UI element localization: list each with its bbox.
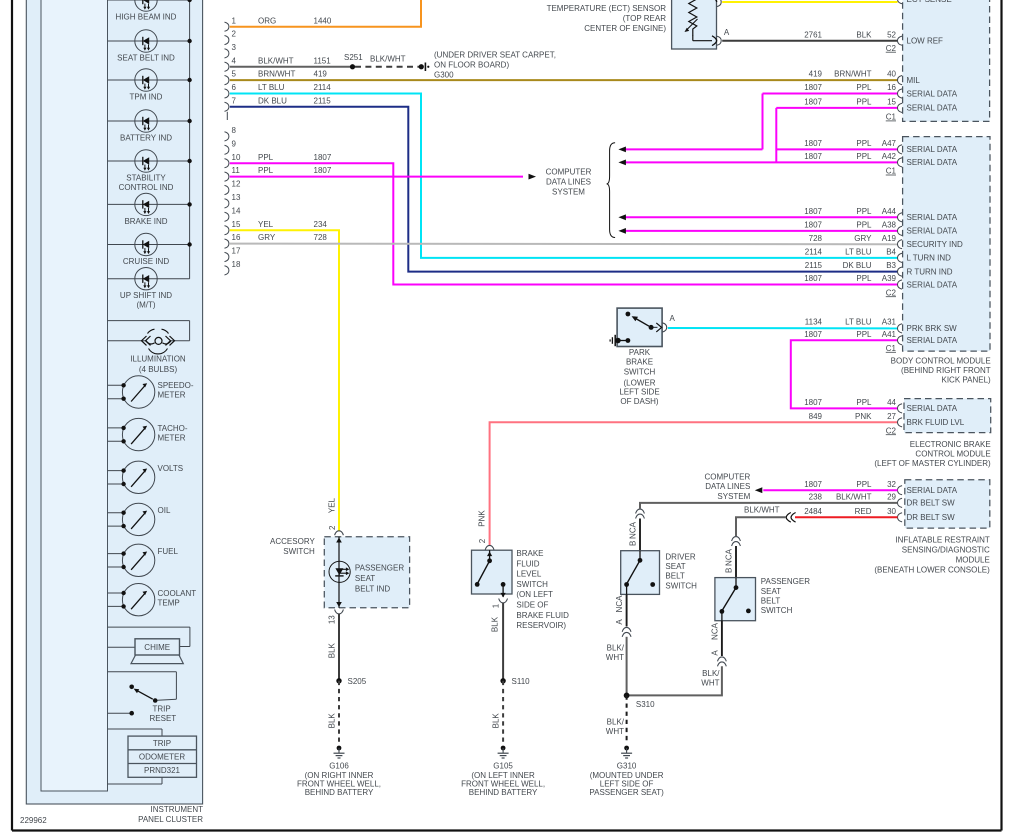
wire YEL 234 pin 15 xyxy=(230,220,339,531)
svg-text:GRY: GRY xyxy=(258,233,276,242)
svg-text:SWITCH: SWITCH xyxy=(665,581,697,590)
cluster connector pin 11 xyxy=(225,166,241,181)
svg-text:10: 10 xyxy=(232,153,241,162)
wire PPL 1807 to module pin 16 xyxy=(763,83,898,93)
svg-text:15: 15 xyxy=(887,98,896,107)
svg-text:SYSTEM: SYSTEM xyxy=(717,492,750,501)
svg-text:LEFT SIDE OF: LEFT SIDE OF xyxy=(600,780,654,789)
svg-text:C2: C2 xyxy=(886,426,897,435)
gauge SPEEDO xyxy=(108,376,194,408)
cluster connector pin 2 xyxy=(225,30,237,45)
svg-text:DRIVER: DRIVER xyxy=(665,552,695,561)
driver seat belt switch xyxy=(621,551,660,595)
wire PPL 1807 to SDM 32 xyxy=(755,480,898,493)
svg-text:A39: A39 xyxy=(882,274,897,283)
svg-text:DATA LINES: DATA LINES xyxy=(705,482,750,491)
instrument panel cluster outline xyxy=(26,0,202,804)
svg-text:SERIAL DATA: SERIAL DATA xyxy=(907,486,958,495)
wire PPL 1807 serial data A47 xyxy=(618,94,897,153)
svg-text:1: 1 xyxy=(491,603,500,608)
svg-text:A44: A44 xyxy=(882,207,897,216)
wire NCA A below passenger switch xyxy=(710,621,726,667)
wire PPL 1807 to module pin 15 xyxy=(776,98,897,108)
wire LT BLU 1134 to A31 xyxy=(668,318,898,329)
svg-text:RED: RED xyxy=(855,507,872,516)
svg-text:FRONT WHEEL WELL,: FRONT WHEEL WELL, xyxy=(297,780,381,789)
svg-text:SIDE OF: SIDE OF xyxy=(516,601,548,610)
indicator LED stability control xyxy=(108,150,192,192)
svg-text:OIL: OIL xyxy=(158,506,171,515)
dashed BLK/WHT to G310 xyxy=(606,695,627,744)
svg-text:5: 5 xyxy=(232,70,237,79)
svg-text:LEFT SIDE: LEFT SIDE xyxy=(619,387,659,396)
svg-text:1807: 1807 xyxy=(804,83,822,92)
cluster connector pin 6 xyxy=(225,83,237,98)
brake fluid level switch label xyxy=(516,549,569,630)
svg-text:9: 9 xyxy=(232,139,237,148)
svg-text:(ON RIGHT INNER: (ON RIGHT INNER xyxy=(305,771,374,780)
computer data lines system note 1 xyxy=(546,168,592,197)
svg-text:2: 2 xyxy=(328,525,337,530)
svg-text:SERIAL DATA: SERIAL DATA xyxy=(907,104,958,113)
wire BLK/WHT 1151 pin 4 xyxy=(230,56,353,66)
svg-text:COMPUTER: COMPUTER xyxy=(546,168,592,177)
illumination bulbs (4) xyxy=(108,321,190,374)
svg-text:8: 8 xyxy=(232,126,237,135)
svg-text:R TURN IND: R TURN IND xyxy=(907,267,953,276)
svg-text:1807: 1807 xyxy=(804,330,822,339)
indicator LED TPM xyxy=(108,69,192,102)
svg-text:11: 11 xyxy=(232,166,241,175)
brace computer data lines xyxy=(607,143,616,238)
indicator LED high beam xyxy=(108,0,192,22)
dashed BLK to G105 xyxy=(492,681,504,744)
computer data lines system note 2 xyxy=(705,473,751,501)
wire GRY 728 pin 16 to A19 xyxy=(230,233,898,244)
svg-text:TEMPERATURE (ECT) SENSOR: TEMPERATURE (ECT) SENSOR xyxy=(547,4,667,13)
cluster internal bus xyxy=(189,0,191,279)
svg-text:G300: G300 xyxy=(434,70,454,79)
svg-text:BELT: BELT xyxy=(665,572,685,581)
svg-text:(ON LEFT: (ON LEFT xyxy=(516,590,553,599)
svg-text:1807: 1807 xyxy=(804,139,822,148)
cluster connector pin 1 xyxy=(225,16,237,31)
svg-text:ODOMETER: ODOMETER xyxy=(139,753,185,762)
splice S251 xyxy=(344,53,363,69)
svg-text:SEAT: SEAT xyxy=(761,587,781,596)
svg-text:CHIME: CHIME xyxy=(144,643,170,652)
svg-text:VOLTS: VOLTS xyxy=(158,464,184,473)
svg-text:14: 14 xyxy=(232,206,241,215)
svg-text:G105: G105 xyxy=(493,761,513,770)
svg-text:PPL: PPL xyxy=(856,207,872,216)
svg-text:PARK: PARK xyxy=(629,348,651,357)
cluster connector pin 4 xyxy=(225,56,237,71)
svg-text:TPM IND: TPM IND xyxy=(130,93,163,102)
svg-text:METER: METER xyxy=(158,391,186,400)
svg-text:32: 32 xyxy=(887,480,896,489)
svg-text:TRIP: TRIP xyxy=(153,705,171,714)
svg-text:15: 15 xyxy=(232,220,241,229)
svg-text:849: 849 xyxy=(809,412,823,421)
svg-text:BATTERY IND: BATTERY IND xyxy=(120,134,172,143)
body control module xyxy=(886,137,990,353)
svg-text:C2: C2 xyxy=(886,288,897,297)
svg-text:WHT: WHT xyxy=(606,653,624,662)
svg-text:BLK/WHT: BLK/WHT xyxy=(370,55,406,64)
svg-text:3: 3 xyxy=(232,43,237,52)
svg-text:BRAKE: BRAKE xyxy=(626,357,653,366)
svg-text:BLK: BLK xyxy=(327,642,336,658)
svg-text:PASSENGER: PASSENGER xyxy=(355,564,404,573)
svg-text:LT BLU: LT BLU xyxy=(258,83,285,92)
svg-text:PRK BRK SW: PRK BRK SW xyxy=(907,324,958,333)
svg-text:SEAT: SEAT xyxy=(355,574,375,583)
svg-text:234: 234 xyxy=(314,220,328,229)
svg-text:BRN/WHT: BRN/WHT xyxy=(258,70,295,79)
ground G300 note xyxy=(434,50,556,79)
svg-text:CONTROL MODULE: CONTROL MODULE xyxy=(915,450,990,459)
svg-text:HIGH BEAM IND: HIGH BEAM IND xyxy=(116,13,177,22)
svg-text:MODULE: MODULE xyxy=(956,555,990,564)
svg-text:PPL: PPL xyxy=(856,139,872,148)
svg-text:SERIAL DATA: SERIAL DATA xyxy=(907,158,958,167)
svg-text:2: 2 xyxy=(478,538,487,543)
indicator LED seat belt xyxy=(108,30,192,63)
label: instrument panel cluster xyxy=(138,805,203,824)
svg-text:SWITCH: SWITCH xyxy=(624,367,656,376)
svg-text:27: 27 xyxy=(887,412,896,421)
svg-text:LT BLU: LT BLU xyxy=(845,248,872,257)
svg-text:B3: B3 xyxy=(886,261,896,270)
svg-text:LEVEL: LEVEL xyxy=(516,570,541,579)
svg-text:ELECTRONIC BRAKE: ELECTRONIC BRAKE xyxy=(910,440,991,449)
gauge TACHO xyxy=(108,418,188,450)
wire DK BLU 2115 pin 7 to B3 xyxy=(230,96,898,271)
svg-text:NCA: NCA xyxy=(615,595,624,613)
inflatable restraint module label xyxy=(874,536,990,575)
wire BRN/WHT 419 pin 5 to MIL xyxy=(230,70,898,80)
connector on driver belt wire xyxy=(636,509,645,518)
svg-text:A38: A38 xyxy=(882,221,897,230)
svg-text:12: 12 xyxy=(232,180,241,189)
trip reset switch xyxy=(108,672,177,723)
svg-text:1: 1 xyxy=(232,16,237,25)
electronic brake control module label xyxy=(874,440,991,468)
svg-text:(LEFT OF MASTER CYLINDER): (LEFT OF MASTER CYLINDER) xyxy=(874,459,991,468)
svg-text:INSTRUMENT: INSTRUMENT xyxy=(151,805,204,814)
svg-text:229962: 229962 xyxy=(20,816,47,825)
wire BLK 2761 to LOW REF 52 xyxy=(722,30,897,40)
svg-text:A: A xyxy=(615,619,624,625)
svg-text:16: 16 xyxy=(232,233,241,242)
wire NCA B to passenger switch xyxy=(724,546,736,578)
svg-text:PPL: PPL xyxy=(856,480,872,489)
svg-text:PASSENGER SEAT): PASSENGER SEAT) xyxy=(589,788,664,797)
indicator LED cruise xyxy=(108,233,192,266)
svg-text:TACHO-: TACHO- xyxy=(158,424,188,433)
svg-text:PRND321: PRND321 xyxy=(144,766,181,775)
passenger seat belt switch label xyxy=(761,577,810,615)
svg-text:DK BLU: DK BLU xyxy=(258,96,287,105)
svg-text:PPL: PPL xyxy=(856,83,872,92)
svg-text:BLK/: BLK/ xyxy=(702,669,720,678)
svg-text:728: 728 xyxy=(809,234,823,243)
svg-text:2761: 2761 xyxy=(804,30,822,39)
cluster connector pin 14 xyxy=(225,206,241,221)
svg-text:728: 728 xyxy=(314,233,328,242)
svg-text:PPL: PPL xyxy=(258,166,274,175)
svg-text:A31: A31 xyxy=(882,318,897,327)
svg-text:1807: 1807 xyxy=(314,166,332,175)
svg-text:SWITCH: SWITCH xyxy=(761,606,793,615)
wire BLK/WHT to passenger belt switch xyxy=(736,506,786,537)
cluster connector pin 7 xyxy=(225,96,237,111)
svg-text:UP SHIFT IND: UP SHIFT IND xyxy=(120,291,172,300)
cluster connector pin 17 xyxy=(225,247,241,262)
svg-text:LT BLU: LT BLU xyxy=(845,318,872,327)
svg-text:SERIAL DATA: SERIAL DATA xyxy=(907,89,958,98)
cluster connector pin 18 xyxy=(225,260,241,275)
svg-text:30: 30 xyxy=(887,507,896,516)
wire NCA B to driver switch xyxy=(628,519,640,551)
svg-text:419: 419 xyxy=(314,70,328,79)
svg-text:METER: METER xyxy=(158,433,186,442)
svg-text:B4: B4 xyxy=(886,248,896,257)
wire BLK 13 to S205 xyxy=(327,610,343,681)
svg-text:COMPUTER: COMPUTER xyxy=(705,473,751,482)
svg-text:1807: 1807 xyxy=(804,480,822,489)
cluster connector pin 12 xyxy=(225,180,241,195)
svg-text:A19: A19 xyxy=(882,234,897,243)
wire PPL 1807 A41 to EBCM 44 xyxy=(791,330,898,408)
indicator LED up shift xyxy=(108,268,190,310)
diagram number 229962 xyxy=(20,816,47,825)
svg-text:STABILITY: STABILITY xyxy=(126,174,166,183)
svg-text:44: 44 xyxy=(887,398,896,407)
svg-text:SEAT BELT IND: SEAT BELT IND xyxy=(117,54,175,63)
svg-text:TEMP: TEMP xyxy=(158,598,180,607)
svg-text:ON FLOOR BOARD): ON FLOOR BOARD) xyxy=(434,60,509,69)
wire BLK pin 1 to S110 xyxy=(491,599,508,681)
svg-text:ILLUMINATION: ILLUMINATION xyxy=(130,355,186,364)
gauge VOLTS xyxy=(108,461,184,493)
svg-text:1807: 1807 xyxy=(804,274,822,283)
svg-text:B: B xyxy=(628,541,637,546)
svg-text:RESERVOIR): RESERVOIR) xyxy=(516,621,566,630)
svg-text:1807: 1807 xyxy=(314,153,332,162)
svg-text:C1: C1 xyxy=(886,167,897,176)
svg-text:PASSENGER: PASSENGER xyxy=(761,577,810,586)
body control module label xyxy=(891,357,991,385)
svg-text:BLK: BLK xyxy=(856,30,872,39)
svg-text:C1: C1 xyxy=(886,344,897,353)
svg-text:PPL: PPL xyxy=(856,221,872,230)
splice S205 xyxy=(336,677,366,686)
svg-text:SERIAL DATA: SERIAL DATA xyxy=(907,280,958,289)
svg-text:PPL: PPL xyxy=(856,398,872,407)
svg-text:SECURITY IND: SECURITY IND xyxy=(907,240,964,249)
svg-text:238: 238 xyxy=(809,493,823,502)
svg-text:A47: A47 xyxy=(882,139,897,148)
svg-text:1807: 1807 xyxy=(804,207,822,216)
svg-text:BLK: BLK xyxy=(491,616,500,632)
svg-text:SERIAL DATA: SERIAL DATA xyxy=(907,227,958,236)
svg-text:OF DASH): OF DASH) xyxy=(620,397,659,406)
svg-text:BRAKE: BRAKE xyxy=(516,549,543,558)
ground G105 xyxy=(461,746,545,798)
svg-text:29: 29 xyxy=(887,493,896,502)
svg-text:BLK/WHT: BLK/WHT xyxy=(744,506,780,515)
park brake switch xyxy=(610,308,675,346)
wire PPL 1807 serial data A38 xyxy=(618,221,897,234)
svg-text:S251: S251 xyxy=(344,53,363,62)
connector group tick xyxy=(226,112,228,120)
svg-text:6: 6 xyxy=(232,83,237,92)
svg-text:COOLANT: COOLANT xyxy=(158,589,197,598)
svg-text:CRUISE IND: CRUISE IND xyxy=(123,257,169,266)
svg-text:2484: 2484 xyxy=(804,507,822,516)
svg-text:(M/T): (M/T) xyxy=(136,301,155,310)
wire YEL to ECT SENSE xyxy=(722,1,897,3)
svg-text:WHT: WHT xyxy=(606,727,624,736)
svg-text:RESET: RESET xyxy=(150,714,177,723)
svg-text:1440: 1440 xyxy=(314,16,332,25)
brake fluid level switch xyxy=(472,545,513,597)
dashed BLK/WHT to G300 xyxy=(355,55,429,72)
svg-text:1134: 1134 xyxy=(805,318,823,327)
ground G310 xyxy=(589,746,664,798)
svg-text:(BEHIND RIGHT FRONT: (BEHIND RIGHT FRONT xyxy=(901,366,991,375)
svg-text:SPEEDO-: SPEEDO- xyxy=(158,381,194,390)
svg-text:(UNDER DRIVER SEAT CARPET,: (UNDER DRIVER SEAT CARPET, xyxy=(434,50,556,59)
svg-text:YEL: YEL xyxy=(258,220,274,229)
cluster connector pin 13 xyxy=(225,193,241,208)
svg-text:TRIP: TRIP xyxy=(153,739,171,748)
ground G106 xyxy=(297,746,381,798)
svg-text:DK BLU: DK BLU xyxy=(843,261,872,270)
svg-text:BRK FLUID LVL: BRK FLUID LVL xyxy=(907,418,965,427)
svg-text:PPL: PPL xyxy=(856,330,872,339)
svg-text:INFLATABLE RESTRAINT: INFLATABLE RESTRAINT xyxy=(895,536,990,545)
svg-text:A41: A41 xyxy=(882,330,897,339)
svg-text:G310: G310 xyxy=(617,761,637,770)
wire NCA A below driver switch xyxy=(615,594,631,636)
wire BLK/WHT passenger to S310 xyxy=(627,666,722,695)
svg-text:SWITCH: SWITCH xyxy=(283,547,315,556)
wire BLK/WHT 238 to SDM 29 xyxy=(640,493,898,509)
svg-text:1151: 1151 xyxy=(314,56,332,65)
wire BLK/WHT driver to S310 xyxy=(606,637,627,696)
wire PPL 1807 pin 10 to A39 xyxy=(230,153,898,285)
svg-text:BLK: BLK xyxy=(492,713,501,729)
svg-text:18: 18 xyxy=(232,260,241,269)
svg-text:419: 419 xyxy=(809,70,823,79)
svg-text:ORG: ORG xyxy=(258,16,276,25)
svg-text:13: 13 xyxy=(232,193,241,202)
svg-text:NCA: NCA xyxy=(710,622,719,640)
svg-text:BRN/WHT: BRN/WHT xyxy=(834,70,871,79)
inflatable restraint sensing diagnostic module xyxy=(898,480,990,528)
trip odometer PRND321 display xyxy=(108,729,197,784)
cluster connector pin 8 xyxy=(225,126,237,141)
svg-text:(MOUNTED UNDER: (MOUNTED UNDER xyxy=(590,771,664,780)
accessory switch label xyxy=(270,537,315,556)
svg-text:DATA LINES: DATA LINES xyxy=(546,177,591,186)
svg-text:13: 13 xyxy=(328,615,337,624)
svg-text:BELT: BELT xyxy=(761,596,781,605)
svg-text:SERIAL DATA: SERIAL DATA xyxy=(907,404,958,413)
svg-text:(4 BULBS): (4 BULBS) xyxy=(139,365,178,374)
svg-text:7: 7 xyxy=(232,96,237,105)
svg-text:1807: 1807 xyxy=(804,98,822,107)
svg-text:16: 16 xyxy=(887,83,896,92)
svg-text:BLK/: BLK/ xyxy=(607,718,625,727)
svg-text:S110: S110 xyxy=(512,677,531,686)
svg-text:KICK PANEL): KICK PANEL) xyxy=(941,376,991,385)
svg-text:40: 40 xyxy=(887,70,896,79)
splice S310 xyxy=(624,693,655,710)
svg-text:PPL: PPL xyxy=(856,152,872,161)
svg-text:1807: 1807 xyxy=(804,152,822,161)
wire PPL 1807 pin 11 to data lines xyxy=(230,166,536,179)
svg-text:52: 52 xyxy=(887,30,896,39)
svg-text:(BENEATH LOWER CONSOLE): (BENEATH LOWER CONSOLE) xyxy=(874,565,990,574)
svg-text:DR BELT SW: DR BELT SW xyxy=(907,513,956,522)
svg-text:L TURN IND: L TURN IND xyxy=(907,254,952,263)
driver seat belt switch label xyxy=(665,552,697,590)
svg-text:PPL: PPL xyxy=(856,98,872,107)
svg-text:SERIAL DATA: SERIAL DATA xyxy=(907,336,958,345)
ECT sensor label xyxy=(547,4,667,33)
svg-text:BLK/: BLK/ xyxy=(607,644,625,653)
wire ORG 1440 pin 1 xyxy=(230,0,421,27)
indicator LED brake xyxy=(108,193,192,226)
accessory switch passenger seat belt ind xyxy=(324,497,409,607)
svg-text:(ON LEFT INNER: (ON LEFT INNER xyxy=(471,771,535,780)
indicator LED battery xyxy=(108,110,192,143)
svg-text:4: 4 xyxy=(232,56,237,65)
svg-text:C1: C1 xyxy=(886,113,897,122)
svg-text:1807: 1807 xyxy=(804,221,822,230)
svg-text:BRAKE FLUID: BRAKE FLUID xyxy=(516,611,569,620)
svg-text:C2: C2 xyxy=(886,44,897,53)
svg-text:PNK: PNK xyxy=(478,510,487,527)
dashed BLK to G106 xyxy=(327,681,339,744)
svg-text:(LOWER: (LOWER xyxy=(624,379,656,388)
park brake switch label xyxy=(619,348,659,406)
wire PNK 849 to 27 xyxy=(478,412,898,545)
svg-text:BLK/WHT: BLK/WHT xyxy=(258,56,294,65)
svg-text:NCA: NCA xyxy=(724,548,733,566)
svg-text:A: A xyxy=(710,650,719,656)
passenger seat belt switch xyxy=(715,578,756,621)
cluster connector pin 5 xyxy=(225,70,237,85)
svg-text:2115: 2115 xyxy=(805,261,823,270)
svg-text:G106: G106 xyxy=(329,761,349,770)
svg-text:PNK: PNK xyxy=(855,412,872,421)
svg-text:B: B xyxy=(724,568,733,573)
svg-text:FRONT WHEEL WELL,: FRONT WHEEL WELL, xyxy=(461,780,545,789)
svg-text:BRAKE IND: BRAKE IND xyxy=(124,217,167,226)
svg-text:ECT SENSE: ECT SENSE xyxy=(907,0,952,4)
connector on passenger belt wire xyxy=(732,537,741,546)
svg-text:ACCESORY: ACCESORY xyxy=(270,537,315,546)
svg-text:A42: A42 xyxy=(882,152,897,161)
wire PPL 1807 serial data A44 xyxy=(618,207,897,220)
cluster connector pin 15 xyxy=(225,220,241,235)
svg-text:2114: 2114 xyxy=(314,83,332,92)
